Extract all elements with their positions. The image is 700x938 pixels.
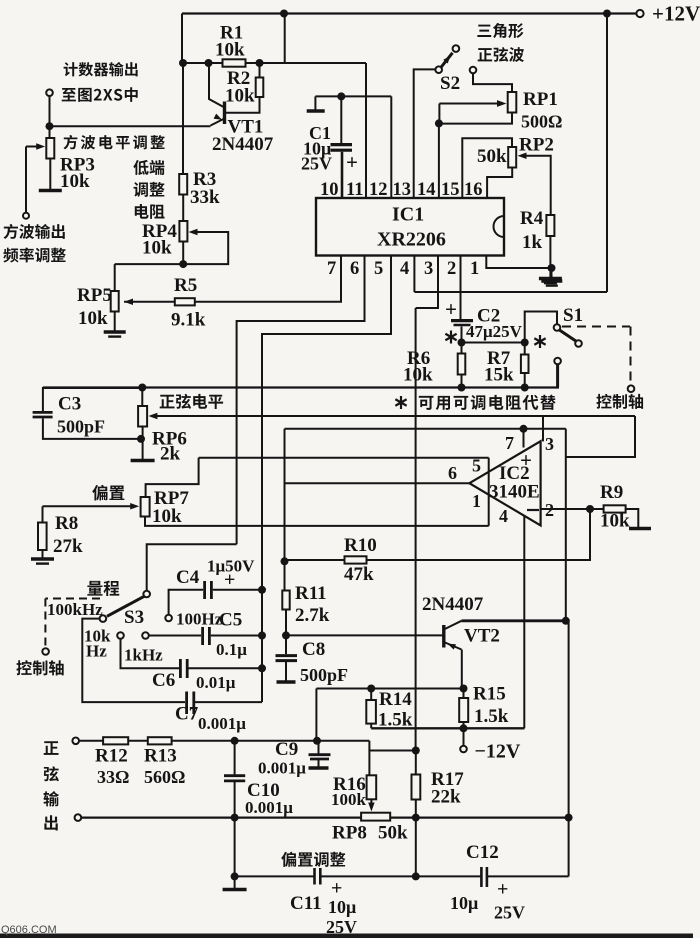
label sine output col1	[44, 741, 59, 755]
svg-text:RP2: RP2	[519, 135, 554, 156]
label sine output col2	[44, 766, 59, 781]
wire bottom sine row	[81, 816, 361, 818]
resistor R8	[38, 523, 47, 551]
node R7 top junction	[521, 339, 529, 347]
node R14 top junction	[367, 685, 375, 693]
capacitor C2 plate1	[451, 319, 473, 322]
svg-text:10k: 10k	[215, 40, 245, 61]
switch S2 pole	[435, 66, 442, 73]
svg-text:C5: C5	[219, 610, 242, 631]
transistor VT1 collector	[209, 63, 225, 108]
svg-text:9.1k: 9.1k	[171, 310, 206, 331]
svg-text:2N4407: 2N4407	[212, 134, 274, 155]
wire op pin7 stub	[523, 429, 525, 448]
wire op-amp V2 corner	[566, 416, 635, 457]
potentiometer RP2	[508, 147, 516, 168]
svg-text:3140E: 3140E	[489, 482, 540, 503]
ground R9	[629, 527, 651, 531]
pot RP3 wiper wire	[26, 146, 40, 148]
svg-text:RP5: RP5	[77, 285, 112, 306]
svg-text:RP1: RP1	[523, 89, 558, 110]
wire top-left drop	[181, 14, 183, 64]
transistor VT2 emitter	[444, 642, 462, 650]
wire RP5 bottom	[114, 312, 116, 331]
transistor VT1 emitter arrow	[214, 114, 224, 123]
ground C8	[277, 680, 296, 684]
wire C5 right	[211, 635, 262, 637]
label square output	[4, 224, 65, 239]
capacitor C11 plate1	[313, 868, 316, 885]
resistor R5	[175, 298, 195, 305]
svg-text:R8: R8	[55, 513, 78, 534]
resistor R1	[223, 59, 246, 66]
wire pin2 drop to C2	[460, 256, 462, 320]
capacitor C10 plate2	[224, 780, 245, 783]
potentiometer RP6	[138, 406, 147, 427]
wire R15 top stub	[463, 689, 465, 699]
node R10 left junction	[281, 557, 289, 565]
switch S3 contact 100Hz	[165, 615, 172, 622]
svg-text:R5: R5	[174, 275, 197, 296]
asterisk replace note	[400, 396, 402, 409]
svg-text:16: 16	[464, 180, 483, 200]
wire pin16 riser RP2 top	[462, 138, 512, 198]
svg-text:C9: C9	[275, 739, 298, 760]
label sine output col4	[44, 815, 57, 830]
switch S2 lever	[441, 53, 453, 68]
label square level adjust	[64, 135, 165, 150]
svg-text:33k: 33k	[190, 187, 220, 208]
capacitor C9 plate1	[309, 753, 331, 756]
capacitor C3 plate2	[33, 416, 53, 419]
svg-text:XR2206: XR2206	[377, 229, 446, 251]
wire RP5 top lead	[114, 264, 116, 291]
node C11 row junction	[412, 872, 420, 880]
pot RP2 wiper run	[523, 156, 551, 215]
svg-text:15k: 15k	[484, 365, 514, 386]
wire S1 link dashes v	[630, 327, 632, 386]
resistor R4	[546, 215, 554, 236]
svg-text:6: 6	[350, 259, 359, 279]
wire VT2 emitter drop	[461, 650, 463, 689]
wire C2 bottom	[461, 327, 463, 343]
node C10 top junction	[231, 737, 239, 745]
wire op pin3 stub	[542, 416, 544, 441]
svg-text:R12: R12	[95, 746, 128, 767]
resistor R16	[367, 775, 377, 799]
node R15 bottom junction	[460, 724, 468, 732]
wire C10 bottom lead	[234, 782, 236, 818]
svg-text:+: +	[445, 297, 457, 321]
potentiometer RP7	[141, 497, 150, 517]
wire C2-R7 rail	[462, 342, 525, 344]
wire -12V rail	[371, 727, 524, 729]
wire R1 row right	[246, 62, 367, 64]
switch S3 contact 10kHz	[117, 632, 124, 639]
terminal +12V	[636, 10, 643, 17]
capacitor C12 plate1	[480, 867, 483, 887]
label triangle wave	[477, 23, 523, 38]
svg-text:3: 3	[545, 434, 554, 454]
pot RP1 wiper wire	[438, 104, 440, 124]
transistor VT1 base bar	[223, 102, 226, 125]
svg-text:R14: R14	[379, 689, 412, 710]
wire RP1 bottom	[439, 113, 512, 124]
wire R9 node drop	[367, 509, 591, 560]
svg-text:5: 5	[472, 456, 481, 476]
wire pin12 drop	[365, 63, 367, 198]
wire R17 bottom	[415, 800, 417, 877]
label control shaft right	[596, 394, 643, 409]
wire pin6 drop jog	[237, 256, 365, 545]
svg-text:0.001μ: 0.001μ	[245, 798, 293, 817]
resistor R2	[256, 78, 264, 98]
wire R9 right	[626, 509, 639, 527]
svg-text:3: 3	[424, 259, 433, 279]
svg-text:R10: R10	[344, 535, 377, 556]
svg-text:C11: C11	[290, 893, 322, 914]
capacitor C9 top lead	[318, 741, 320, 754]
ground C9	[309, 766, 329, 770]
pot RP4 wiper arrow	[189, 229, 198, 235]
svg-text:10μ: 10μ	[450, 893, 478, 913]
pot RP1 wiper run	[439, 103, 497, 105]
capacitor C2 plate2	[454, 324, 471, 327]
svg-text:0.001μ: 0.001μ	[198, 714, 246, 733]
resistor R11	[282, 591, 289, 610]
resistor R13	[148, 737, 172, 744]
svg-text:C6: C6	[152, 670, 175, 691]
capacitor C10 plate1	[224, 774, 245, 777]
svg-text:2N4407: 2N4407	[422, 594, 484, 615]
wire op pin6 run	[285, 482, 470, 484]
wire 100kHz contact run	[82, 619, 185, 703]
wire sine top lead	[79, 740, 103, 742]
svg-text:15: 15	[441, 180, 460, 200]
scan edge bar	[0, 934, 693, 938]
node C4 junction	[258, 586, 266, 594]
wire R16 top jog	[369, 751, 415, 776]
svg-text:6: 6	[448, 463, 457, 483]
node R17 row junction	[412, 814, 420, 822]
capacitor C8 plate2	[276, 659, 298, 662]
capacitor C4 plate2	[210, 581, 213, 599]
wire RP6 wiper run	[154, 415, 636, 417]
wire R3 top lead	[182, 63, 184, 174]
svg-text:+: +	[520, 448, 532, 472]
node C5 junction	[258, 632, 266, 640]
svg-text:2k: 2k	[160, 444, 181, 465]
svg-text:11: 11	[346, 180, 363, 200]
svg-text:VT2: VT2	[464, 626, 500, 647]
node bottom row corner	[231, 872, 239, 880]
svg-text:4: 4	[499, 506, 508, 526]
wire C9 bottom	[318, 760, 320, 767]
ground R4	[539, 277, 562, 281]
node R2 top junction	[256, 59, 264, 67]
svg-text:1: 1	[472, 491, 481, 511]
wire V316 riser	[315, 689, 317, 741]
ground C1 rail stub	[314, 96, 316, 110]
wire pin1 gnd stub	[551, 268, 553, 280]
wire R14 R15 top row	[316, 688, 463, 690]
wire R6 top stub	[461, 343, 463, 354]
capacitor C5 plate2	[208, 627, 211, 645]
pot RP3 wiper arrow	[36, 143, 45, 149]
svg-text:25V: 25V	[301, 154, 332, 174]
wire sine row right	[172, 740, 370, 742]
wire C7 right	[195, 701, 262, 703]
transistor VT2 base bar	[442, 625, 445, 648]
wire C10 top lead	[234, 741, 236, 775]
svg-text:1k: 1k	[522, 232, 543, 253]
capacitor C6 plate2	[186, 659, 189, 678]
switch S1 lever	[559, 330, 576, 341]
wire VT1 emitter run	[50, 125, 211, 127]
wire C8 bottom	[285, 662, 287, 681]
IC U1 notch	[494, 216, 505, 237]
asterisk left of R6	[450, 331, 452, 344]
wire RP6 top stub	[141, 388, 143, 407]
wire R6 bottom	[461, 375, 463, 388]
asterisk right of R7	[539, 335, 541, 348]
resistor R9	[604, 505, 626, 512]
pot RP4 wiper wire	[115, 232, 229, 264]
terminal sine out hot	[72, 738, 79, 745]
node RP1 junction	[435, 119, 443, 127]
wire C3 bottom lead	[43, 419, 141, 439]
svg-text:2: 2	[447, 259, 456, 279]
wire RP3 bottom	[49, 159, 51, 190]
svg-text:10k: 10k	[403, 365, 433, 386]
capacitor C11 plate2	[319, 868, 322, 885]
svg-text:13: 13	[393, 180, 412, 200]
wire RP4 bottom	[182, 242, 184, 265]
capacitor C3 plate1	[33, 411, 53, 414]
switch S2 throw contact	[453, 45, 460, 52]
wire C4 right	[213, 589, 262, 591]
wire C6 right	[189, 667, 263, 669]
capacitor C7 plate1	[185, 692, 188, 715]
wire R4 bottom	[549, 236, 551, 277]
switch S3 lever	[107, 596, 144, 616]
wire R17 top stub	[415, 751, 417, 775]
node V1 row junction	[565, 814, 573, 822]
wire pin13 drop	[390, 96, 392, 198]
label sine wave	[478, 47, 524, 62]
switch S3 pole	[143, 591, 150, 598]
IC U1 XR2206 body	[316, 198, 504, 256]
svg-text:R9: R9	[600, 482, 623, 503]
node C1 junction	[337, 92, 345, 100]
capacitor C12 plate2	[486, 867, 489, 887]
pot RP8 wiper arrow	[368, 803, 374, 812]
wire pin15 drop	[438, 123, 440, 198]
svg-text:C12: C12	[466, 842, 499, 863]
node RP4 bottom junction	[179, 260, 187, 268]
transistor VT2 collector	[444, 621, 462, 630]
ground RP6	[131, 459, 155, 463]
wire C11 row left	[235, 875, 315, 877]
wire C1 bottom lead pin11	[341, 152, 344, 198]
resistor R15	[459, 698, 468, 722]
wire H1 run	[285, 428, 566, 430]
node R9 junction	[586, 505, 594, 513]
svg-text:10k: 10k	[142, 238, 172, 259]
svg-text:−12V: −12V	[475, 741, 521, 763]
terminal sine out gnd	[75, 814, 82, 821]
svg-text:R15: R15	[473, 684, 506, 705]
capacitor C8 top lead	[285, 635, 287, 654]
wire RP6 bottom	[142, 427, 144, 460]
wire long vertical V415	[415, 308, 417, 751]
resistor R6	[458, 354, 466, 375]
svg-text:560Ω: 560Ω	[144, 767, 185, 787]
transistor VT2 emitter arrow	[446, 641, 456, 649]
pot RP2 wiper arrow	[518, 153, 527, 159]
potentiometer RP1	[508, 92, 517, 113]
wire RP8 row right	[390, 816, 568, 818]
svg-text:500pF: 500pF	[57, 417, 105, 437]
label counter output	[64, 62, 138, 76]
svg-text:1: 1	[470, 259, 479, 279]
switch S1 contact c	[554, 358, 561, 365]
switch S3 contact 100kHz	[100, 615, 107, 622]
wire op pin2 run	[541, 508, 604, 510]
svg-text:C3: C3	[58, 394, 81, 415]
wire R1 row left	[182, 62, 223, 64]
label sine level	[160, 394, 223, 409]
terminal S3 control shaft	[42, 648, 49, 655]
resistor R12	[103, 737, 128, 744]
svg-text:7: 7	[505, 433, 514, 453]
pot RP1 wiper arrow	[497, 100, 507, 107]
wire R11 bottom	[285, 610, 287, 636]
pot RP5 wiper arrow	[124, 299, 133, 305]
capacitor C7 plate2	[192, 692, 195, 715]
wire C12 row right	[487, 875, 568, 877]
node VT1 collector junction	[205, 59, 213, 67]
node C10 bottom junction	[231, 814, 239, 822]
wire 1kHz contact run	[149, 635, 201, 637]
pot RP7 wiper arrow	[130, 503, 139, 509]
node RP6 top junction	[138, 384, 146, 392]
svg-text:RP8: RP8	[332, 823, 367, 844]
svg-text:+: +	[224, 569, 235, 591]
wire RP7 top staircase	[146, 458, 199, 497]
terminal -12V	[460, 746, 467, 753]
svg-text:0.001μ: 0.001μ	[258, 759, 306, 778]
svg-text:10k: 10k	[78, 308, 108, 329]
node R3 top junction	[179, 59, 187, 67]
wire S3 link dashes h	[45, 598, 100, 600]
resistor R10	[345, 556, 367, 563]
wire R10 left	[285, 559, 345, 561]
wire R14 bottom	[370, 724, 372, 729]
label to fig 2XS	[62, 87, 138, 102]
capacitor C4 plate1	[203, 581, 206, 599]
svg-text:S3: S3	[124, 607, 144, 628]
svg-text:Q606.COM: Q606.COM	[1, 924, 57, 936]
label range	[87, 581, 119, 596]
wire R8 bottom	[42, 550, 44, 558]
svg-text:10: 10	[320, 180, 339, 200]
label control shaft left	[16, 660, 63, 675]
wire sine-select to RP1	[473, 73, 512, 92]
wire +12V top rail	[182, 12, 637, 14]
svg-text:2.7k: 2.7k	[295, 605, 330, 626]
wire RP5 wiper to R5	[124, 301, 175, 303]
svg-text:R13: R13	[144, 746, 177, 767]
wire C11-C12 row	[321, 875, 481, 877]
svg-text:47k: 47k	[344, 564, 374, 585]
svg-text:+: +	[346, 150, 358, 174]
wire RP3 wiper drop	[25, 147, 27, 213]
wire R15 bottom	[463, 722, 465, 728]
node top-rail junction A	[280, 10, 288, 18]
node RP3 junction	[46, 122, 54, 130]
svg-text:100k: 100k	[331, 790, 367, 809]
ground R8	[31, 557, 54, 561]
wire U riser	[488, 458, 490, 526]
resistor R7	[521, 355, 529, 374]
svg-text:1.5k: 1.5k	[474, 706, 509, 727]
wire S1 riser	[525, 312, 557, 343]
potentiometer RP4	[179, 221, 187, 242]
terminal square out	[23, 213, 29, 219]
wire C3 top lead	[43, 388, 142, 411]
wire R7 bottom	[524, 373, 526, 387]
wire R16 bottom	[370, 799, 372, 805]
svg-text:IC1: IC1	[392, 204, 424, 226]
terminal counter output	[46, 89, 53, 96]
wire pin4 stub	[413, 256, 415, 293]
svg-text:R4: R4	[520, 208, 544, 229]
terminal S1 control shaft	[628, 385, 635, 392]
label low end adj resistor line2	[134, 182, 165, 197]
resistor R14	[366, 700, 376, 724]
wire +12V feed drop	[606, 14, 608, 293]
wire RP7 bottom thick run	[145, 517, 489, 526]
wire 100Hz contact riser	[169, 590, 203, 615]
switch S1 contact b	[575, 340, 582, 347]
node R16 R17 junction	[412, 747, 420, 755]
svg-text:14: 14	[417, 180, 436, 200]
svg-text:7: 7	[327, 259, 336, 279]
wire R3 to RP4	[182, 195, 184, 222]
svg-text:S1: S1	[563, 305, 583, 326]
capacitor C5 plate1	[201, 627, 204, 645]
svg-text:0.1μ: 0.1μ	[216, 640, 247, 659]
label sine output col3	[43, 791, 59, 806]
svg-text:5: 5	[374, 259, 383, 279]
wire C1 top lead	[340, 96, 342, 143]
wire S1 link dashes h	[562, 326, 630, 328]
capacitor C9 plate2	[310, 758, 329, 761]
node R11 C8 junction	[282, 631, 290, 639]
node C3-RP6 junction	[137, 435, 145, 443]
label bias adjust	[281, 852, 345, 867]
svg-text:22k: 22k	[431, 787, 461, 808]
pot RP6 wiper arrow	[148, 413, 157, 419]
capacitor C1 plate2	[331, 149, 353, 152]
label bias	[92, 485, 124, 501]
wire R12-R13	[128, 740, 148, 742]
wire RP2 bottom	[487, 168, 512, 199]
ground pin1	[541, 279, 562, 283]
svg-text:100Hz: 100Hz	[176, 610, 223, 629]
svg-text:12: 12	[369, 180, 388, 200]
